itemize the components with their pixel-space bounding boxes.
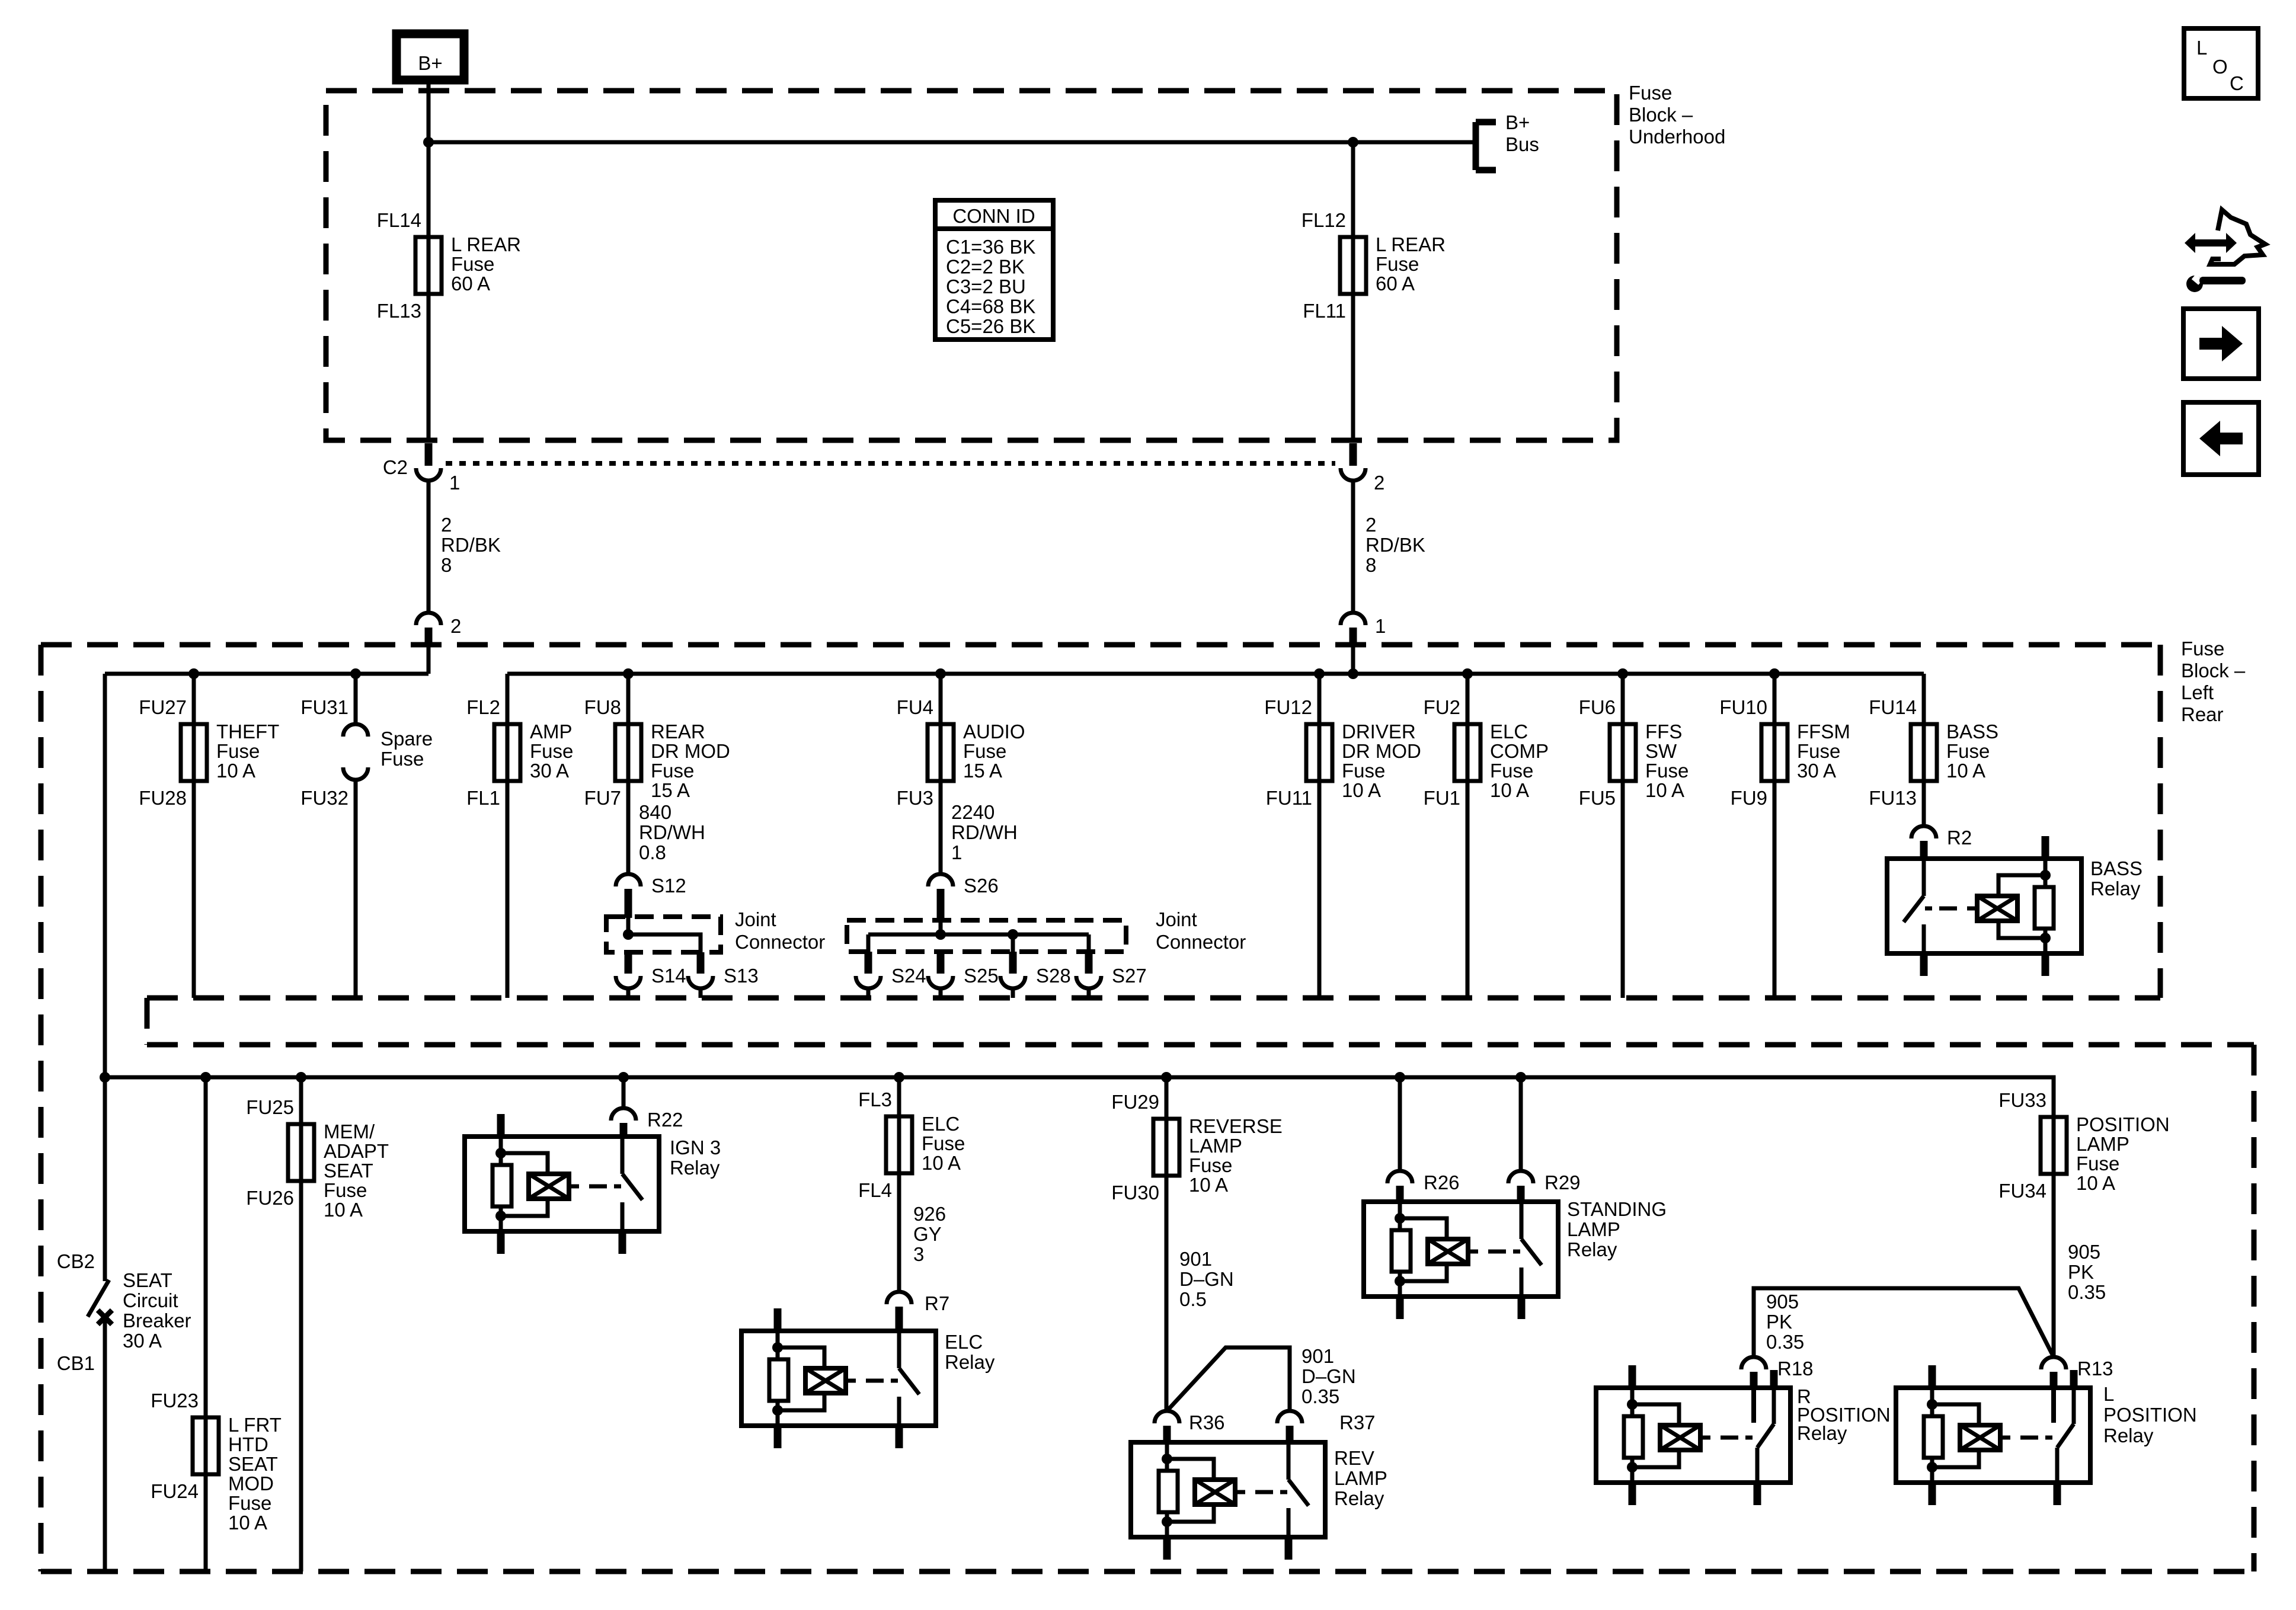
svg-text:Fuse: Fuse <box>1342 760 1385 782</box>
svg-text:S28: S28 <box>1036 965 1071 987</box>
svg-text:Joint: Joint <box>1156 908 1197 930</box>
svg-text:Relay: Relay <box>2103 1425 2154 1446</box>
svg-text:R29: R29 <box>1544 1172 1581 1193</box>
svg-text:BASS: BASS <box>1946 721 1998 742</box>
svg-text:MEM/: MEM/ <box>324 1121 375 1142</box>
connector R13 <box>2041 1357 2113 1379</box>
junction dot R22 drop <box>618 1072 629 1083</box>
svg-text:Connector: Connector <box>1156 931 1246 953</box>
fuse FL3/FL4 ELC 10A <box>858 1089 965 1201</box>
wire DRIVER DR MOD fuse <box>1318 674 1322 998</box>
svg-text:S24: S24 <box>891 965 926 987</box>
svg-text:R36: R36 <box>1189 1411 1225 1433</box>
svg-text:2: 2 <box>1374 472 1384 494</box>
svg-text:Underhood: Underhood <box>1629 126 1725 148</box>
bottom bus wire <box>105 1077 2054 1117</box>
svg-text:IGN 3: IGN 3 <box>670 1137 721 1158</box>
svg-text:Fuse: Fuse <box>1645 760 1689 782</box>
svg-text:Joint: Joint <box>735 908 776 930</box>
fuse FU6/FU5 FFS SW 10A <box>1579 696 1689 809</box>
relay R POSITION <box>1596 1365 1891 1505</box>
svg-text:RD/BK: RD/BK <box>441 534 501 556</box>
label Joint Connector 2 <box>1156 908 1246 953</box>
wire 905 PK 0.35 right <box>2054 1117 2106 1357</box>
svg-text:FU7: FU7 <box>584 787 621 809</box>
wire FFS SW fuse <box>1621 674 1625 998</box>
svg-text:FU5: FU5 <box>1579 787 1616 809</box>
svg-text:COMP: COMP <box>1490 740 1549 762</box>
spare fuse FU31/FU32 <box>300 674 433 998</box>
svg-text:FU13: FU13 <box>1869 787 1917 809</box>
dotted connector line <box>446 461 1335 466</box>
junction dot FU6 <box>1617 668 1628 679</box>
fuse FU8/FU7 REAR DR MOD 15A <box>584 696 730 809</box>
svg-text:R13: R13 <box>2077 1358 2113 1379</box>
joint connector 2 wiring <box>868 921 1089 952</box>
wire bus to R22 <box>622 1077 626 1109</box>
svg-text:STANDING: STANDING <box>1567 1198 1667 1220</box>
svg-text:C2=2 BK: C2=2 BK <box>946 256 1025 278</box>
svg-text:10 A: 10 A <box>2076 1172 2115 1194</box>
CONN ID table <box>935 200 1053 340</box>
fuse FU25/FU26 MEM/ADAPT SEAT 10A <box>246 1096 389 1221</box>
svg-text:Fuse: Fuse <box>1376 253 1419 275</box>
wire FL13 to C2 <box>427 294 431 442</box>
svg-text:0.5: 0.5 <box>1179 1288 1207 1310</box>
svg-text:R37: R37 <box>1339 1411 1376 1433</box>
svg-text:840: 840 <box>639 801 671 823</box>
connector left pin 2 bottom <box>416 613 461 647</box>
svg-text:ELC: ELC <box>945 1331 983 1353</box>
connector R18 <box>1741 1357 1814 1379</box>
connector S28 <box>1000 952 1071 998</box>
svg-text:FU3: FU3 <box>897 787 933 809</box>
connector right pin 1 bottom <box>1341 613 1386 647</box>
joint connector 1 dashed box <box>606 917 721 952</box>
wire ELC COMP fuse <box>1466 674 1470 998</box>
wire FU23 drop <box>204 1077 208 1571</box>
relay BASS <box>1887 836 2142 976</box>
joint connector 2 dashed box <box>847 920 1126 952</box>
svg-text:Bus: Bus <box>1505 133 1539 155</box>
svg-text:FU32: FU32 <box>300 787 348 809</box>
svg-text:Relay: Relay <box>670 1157 720 1179</box>
svg-text:Circuit: Circuit <box>123 1289 178 1311</box>
svg-text:Left: Left <box>2181 681 2214 703</box>
wire 926 GY 3 <box>899 1173 946 1292</box>
svg-text:10 A: 10 A <box>216 760 255 782</box>
connector R22 <box>611 1108 683 1131</box>
svg-text:Fuse: Fuse <box>1490 760 1533 782</box>
svg-text:BASS: BASS <box>2090 857 2142 879</box>
svg-text:CB1: CB1 <box>57 1352 95 1374</box>
svg-text:Fuse: Fuse <box>2076 1153 2119 1174</box>
wire 2 RD/BK 8 left <box>428 479 501 614</box>
junction dot FU2 <box>1462 668 1473 679</box>
svg-text:GY: GY <box>913 1223 942 1245</box>
svg-text:LAMP: LAMP <box>1334 1467 1387 1489</box>
svg-text:R26: R26 <box>1424 1172 1460 1193</box>
svg-text:10 A: 10 A <box>1645 779 1684 801</box>
connector S14 <box>616 952 686 998</box>
connector R7 <box>887 1292 949 1314</box>
wire THEFT fuse <box>192 674 196 998</box>
relay IGN 3 <box>465 1114 721 1254</box>
svg-text:Fuse: Fuse <box>324 1179 367 1201</box>
fusible link FL12/FL11 L REAR 60A <box>1302 142 1446 442</box>
svg-text:ELC: ELC <box>922 1113 960 1135</box>
svg-text:RD/WH: RD/WH <box>951 821 1018 843</box>
svg-text:10 A: 10 A <box>922 1152 961 1174</box>
svg-text:0.8: 0.8 <box>639 841 666 863</box>
svg-text:FU2: FU2 <box>1424 696 1460 718</box>
svg-text:FU23: FU23 <box>151 1390 199 1411</box>
svg-text:FL11: FL11 <box>1303 300 1346 322</box>
icon next arrow box <box>2183 309 2259 379</box>
junction dot CB drop <box>100 1072 110 1083</box>
wire C2 pin2 into bus <box>427 647 431 674</box>
junction dot at B+ drop <box>423 137 434 148</box>
svg-text:FU9: FU9 <box>1731 787 1767 809</box>
label Fuse Block - Underhood <box>1629 82 1725 148</box>
junction dot R26 drop <box>1395 1072 1405 1083</box>
junction dot FU25 drop <box>296 1072 306 1083</box>
junction dot FU4 <box>935 668 946 679</box>
connector S25 <box>928 952 999 998</box>
svg-text:Fuse: Fuse <box>1629 82 1672 104</box>
svg-text:901: 901 <box>1302 1345 1334 1367</box>
junction dot R29 drop <box>1515 1072 1526 1083</box>
svg-text:FL3: FL3 <box>858 1089 892 1110</box>
svg-text:LAMP: LAMP <box>1189 1135 1242 1157</box>
wire left drop to lower bus <box>103 674 107 1077</box>
fuse FU14/FU13 BASS 10A <box>1869 696 1998 809</box>
svg-text:RD/BK: RD/BK <box>1366 534 1425 556</box>
svg-text:30 A: 30 A <box>1797 760 1836 782</box>
svg-text:POSITION: POSITION <box>2103 1404 2197 1426</box>
svg-text:FU11: FU11 <box>1266 787 1312 809</box>
svg-text:L: L <box>2196 37 2207 59</box>
svg-text:CONN ID: CONN ID <box>952 205 1035 227</box>
svg-text:S26: S26 <box>964 875 999 897</box>
svg-text:Fuse: Fuse <box>530 740 573 762</box>
svg-text:1: 1 <box>1375 615 1386 637</box>
svg-text:Fuse: Fuse <box>1946 740 1990 762</box>
junction dot FU29 drop <box>1161 1072 1172 1083</box>
svg-text:B+: B+ <box>1505 111 1530 133</box>
fuse FU23/FU24 L FRT HTD SEAT MOD 10A <box>151 1390 282 1534</box>
svg-text:D–GN: D–GN <box>1302 1365 1356 1387</box>
svg-text:Fuse: Fuse <box>1189 1154 1232 1176</box>
svg-text:THEFT: THEFT <box>216 721 279 742</box>
svg-text:HTD: HTD <box>228 1433 268 1455</box>
wire 901 D-GN 0.5 <box>1166 1176 1234 1411</box>
svg-text:0.35: 0.35 <box>1766 1331 1804 1353</box>
connector S12 <box>616 874 686 918</box>
svg-text:Relay: Relay <box>1797 1422 1847 1444</box>
wire bus to R26 <box>1398 1077 1402 1171</box>
connector R29 <box>1508 1171 1581 1193</box>
svg-text:Connector: Connector <box>735 931 825 953</box>
fuse FU10/FU9 FFSM 30A <box>1719 696 1850 809</box>
svg-text:Fuse: Fuse <box>2181 638 2224 660</box>
svg-text:SEAT: SEAT <box>228 1453 278 1475</box>
svg-text:REAR: REAR <box>651 721 705 742</box>
svg-text:SEAT: SEAT <box>123 1269 172 1291</box>
svg-text:C4=68 BK: C4=68 BK <box>946 296 1035 318</box>
svg-text:Rear: Rear <box>2181 703 2224 725</box>
joint connector 1 wiring <box>623 918 701 952</box>
wire B+ to bus <box>427 80 431 142</box>
branch wire to R37 <box>1167 1345 1356 1411</box>
svg-text:D–GN: D–GN <box>1179 1268 1234 1290</box>
junction dot FL3 drop <box>894 1072 904 1083</box>
svg-text:60 A: 60 A <box>1376 273 1415 295</box>
svg-text:Fuse: Fuse <box>228 1492 271 1514</box>
junction dot FU27 <box>188 668 199 679</box>
svg-text:R18: R18 <box>1777 1358 1814 1379</box>
relay L POSITION <box>1896 1365 2197 1505</box>
connector S24 <box>856 952 926 998</box>
svg-text:POSITION: POSITION <box>2076 1113 2170 1135</box>
svg-text:C5=26 BK: C5=26 BK <box>946 315 1035 337</box>
svg-text:8: 8 <box>441 554 452 576</box>
svg-text:PK: PK <box>2068 1261 2094 1283</box>
svg-text:Relay: Relay <box>2090 878 2141 900</box>
svg-text:30 A: 30 A <box>123 1330 162 1352</box>
fuse FU12/FU11 DRIVER DR MOD 10A <box>1264 696 1421 809</box>
svg-text:FU12: FU12 <box>1264 696 1312 718</box>
relay REV LAMP <box>1131 1426 1387 1560</box>
svg-text:2: 2 <box>450 615 461 637</box>
B+ Bus terminal bracket <box>1476 111 1539 170</box>
fuse block left rear dashed outline <box>41 645 2254 1571</box>
label Joint Connector 1 <box>735 908 825 953</box>
wire AUDIO fuse <box>939 674 943 781</box>
svg-text:CB2: CB2 <box>57 1250 95 1272</box>
svg-text:ELC: ELC <box>1490 721 1528 742</box>
wire FFSM fuse <box>1773 674 1777 998</box>
svg-text:ADAPT: ADAPT <box>324 1140 389 1162</box>
junction dot FU8 <box>623 668 634 679</box>
svg-text:FU24: FU24 <box>151 1480 199 1502</box>
wire bus down to FL14 fuse <box>427 142 431 294</box>
svg-text:RD/WH: RD/WH <box>639 821 705 843</box>
svg-text:FU1: FU1 <box>1424 787 1460 809</box>
svg-text:Fuse: Fuse <box>922 1132 965 1154</box>
svg-text:DR MOD: DR MOD <box>1342 740 1421 762</box>
svg-text:PK: PK <box>1766 1311 1792 1333</box>
svg-text:10 A: 10 A <box>1342 779 1381 801</box>
connector C2 pin 1 <box>383 443 461 494</box>
svg-text:Spare: Spare <box>380 728 433 750</box>
svg-text:O: O <box>2212 56 2228 78</box>
svg-text:S25: S25 <box>964 965 999 987</box>
svg-text:R7: R7 <box>925 1292 949 1314</box>
svg-text:L FRT: L FRT <box>228 1414 282 1436</box>
svg-text:15 A: 15 A <box>963 760 1002 782</box>
svg-text:C: C <box>2230 72 2244 94</box>
svg-text:1: 1 <box>951 841 962 863</box>
junction dot FU23 drop <box>200 1072 211 1083</box>
svg-text:2: 2 <box>441 514 452 536</box>
fusible link FL14/FL13 L REAR 60A <box>377 209 521 322</box>
connector R37 <box>1277 1411 1376 1433</box>
svg-text:FL13: FL13 <box>377 300 421 322</box>
svg-text:10 A: 10 A <box>228 1512 267 1534</box>
svg-text:FU25: FU25 <box>246 1096 294 1118</box>
junction dot FU12 <box>1314 668 1325 679</box>
wire 2240 RD/WH 1 <box>941 781 1018 875</box>
wire FL11 pin1 into bus <box>1348 647 1358 679</box>
svg-text:Relay: Relay <box>945 1351 995 1373</box>
svg-text:Relay: Relay <box>1334 1487 1384 1509</box>
wire 840 RD/WH 0.8 <box>628 781 705 875</box>
svg-text:B+: B+ <box>418 52 442 74</box>
connector S27 <box>1076 952 1147 998</box>
svg-text:10 A: 10 A <box>324 1199 363 1221</box>
wire bus to R29 <box>1519 1077 1523 1171</box>
svg-text:Breaker: Breaker <box>123 1310 191 1331</box>
icon vehicle service <box>2185 210 2265 292</box>
connector R36 <box>1155 1411 1225 1433</box>
svg-text:FU10: FU10 <box>1719 696 1767 718</box>
svg-text:3: 3 <box>913 1243 924 1265</box>
svg-text:LAMP: LAMP <box>1567 1218 1620 1240</box>
junction dot FU31 <box>350 668 361 679</box>
svg-text:30 A: 30 A <box>530 760 569 782</box>
svg-text:10 A: 10 A <box>1946 760 1985 782</box>
wire bus to FL3 <box>897 1077 901 1173</box>
svg-text:R22: R22 <box>647 1109 683 1131</box>
wire REAR DR MOD fuse <box>626 674 631 781</box>
svg-text:Fuse: Fuse <box>963 740 1006 762</box>
svg-text:L REAR: L REAR <box>451 233 521 255</box>
svg-text:FU26: FU26 <box>246 1187 294 1209</box>
svg-text:S12: S12 <box>651 875 686 897</box>
svg-text:S13: S13 <box>724 965 759 987</box>
fuse FL2/FL1 AMP 30A <box>466 696 573 809</box>
svg-text:FU14: FU14 <box>1869 696 1917 718</box>
branch wire to R18 <box>1754 1288 2054 1357</box>
fuse FU33/FU34 POSITION LAMP 10A <box>1998 1089 2169 1202</box>
connector right pin 2 top <box>1341 443 1384 494</box>
svg-text:FU4: FU4 <box>897 696 933 718</box>
icon back arrow box <box>2183 402 2259 475</box>
label Fuse Block - Left Rear <box>2181 638 2246 725</box>
svg-text:DRIVER: DRIVER <box>1342 721 1416 742</box>
svg-text:L REAR: L REAR <box>1376 233 1446 255</box>
svg-text:S27: S27 <box>1112 965 1147 987</box>
svg-text:2240: 2240 <box>951 801 994 823</box>
wire BASS fuse <box>1922 674 1926 826</box>
relay STANDING LAMP <box>1364 1186 1667 1319</box>
svg-text:REVERSE: REVERSE <box>1189 1115 1283 1137</box>
svg-text:FFSM: FFSM <box>1797 721 1850 742</box>
svg-text:REV: REV <box>1334 1447 1374 1469</box>
top bus wire <box>428 140 1476 145</box>
relay ELC <box>741 1307 995 1448</box>
svg-text:926: 926 <box>913 1203 946 1225</box>
fuse block underhood dashed box <box>326 91 1617 440</box>
wire FU25 drop <box>299 1077 303 1571</box>
icon LOC box <box>2184 28 2258 98</box>
svg-text:FU27: FU27 <box>139 696 187 718</box>
svg-text:Fuse: Fuse <box>651 760 694 782</box>
circuit breaker CB2/CB1 SEAT 30A <box>57 1077 191 1571</box>
wire AMP fuse <box>506 674 510 998</box>
svg-text:FU6: FU6 <box>1579 696 1616 718</box>
svg-text:DR MOD: DR MOD <box>651 740 730 762</box>
svg-text:FU30: FU30 <box>1111 1182 1159 1204</box>
fuse FU29/FU30 REVERSE LAMP 10A <box>1111 1091 1282 1204</box>
svg-text:901: 901 <box>1179 1248 1212 1270</box>
svg-text:1: 1 <box>449 472 460 494</box>
svg-text:FU33: FU33 <box>1998 1089 2046 1111</box>
svg-text:AMP: AMP <box>530 721 573 742</box>
connector R2 <box>1911 826 1972 860</box>
svg-text:L: L <box>2103 1383 2114 1405</box>
connector S26 <box>928 874 999 921</box>
middle bus segment A <box>105 672 428 676</box>
svg-text:FU28: FU28 <box>139 787 187 809</box>
fuse FU27/FU28 THEFT 10A <box>139 696 279 809</box>
svg-text:2: 2 <box>1366 514 1376 536</box>
svg-text:Block –: Block – <box>1629 104 1693 126</box>
svg-text:Fuse: Fuse <box>380 748 424 770</box>
svg-text:MOD: MOD <box>228 1473 274 1494</box>
svg-text:FL2: FL2 <box>466 696 500 718</box>
svg-text:LAMP: LAMP <box>2076 1133 2129 1155</box>
svg-text:C2: C2 <box>383 456 408 478</box>
svg-text:Fuse: Fuse <box>451 253 494 275</box>
junction dot FU10 <box>1769 668 1780 679</box>
svg-text:0.35: 0.35 <box>1302 1385 1339 1407</box>
svg-text:60 A: 60 A <box>451 273 490 295</box>
svg-text:FU34: FU34 <box>1998 1180 2046 1202</box>
svg-text:AUDIO: AUDIO <box>963 721 1025 742</box>
svg-text:FFS: FFS <box>1645 721 1682 742</box>
svg-text:Fuse: Fuse <box>216 740 260 762</box>
svg-text:C3=2 BU: C3=2 BU <box>946 276 1026 297</box>
svg-text:0.35: 0.35 <box>2068 1281 2106 1303</box>
fuse FU4/FU3 AUDIO 15A <box>897 696 1025 809</box>
svg-text:905: 905 <box>2068 1241 2100 1263</box>
svg-text:Fuse: Fuse <box>1797 740 1840 762</box>
wire 2 RD/BK 8 right <box>1353 479 1425 614</box>
junction dot at FL12 drop <box>1348 137 1358 148</box>
middle bus segment B <box>507 672 1924 676</box>
svg-text:FL12: FL12 <box>1302 209 1346 231</box>
svg-text:FU8: FU8 <box>584 696 621 718</box>
connector S13 <box>688 952 759 998</box>
svg-text:8: 8 <box>1366 554 1376 576</box>
svg-text:FL14: FL14 <box>377 209 421 231</box>
connector R26 <box>1387 1171 1460 1193</box>
svg-text:C1=36 BK: C1=36 BK <box>946 236 1035 258</box>
svg-text:FU29: FU29 <box>1111 1091 1159 1113</box>
svg-text:Relay: Relay <box>1567 1238 1617 1260</box>
svg-text:FU31: FU31 <box>300 696 348 718</box>
svg-text:905: 905 <box>1766 1291 1799 1313</box>
power terminal B+ <box>396 34 464 80</box>
svg-text:10 A: 10 A <box>1490 779 1529 801</box>
svg-text:SEAT: SEAT <box>324 1160 373 1182</box>
fuse FU2/FU1 ELC COMP 10A <box>1424 696 1549 809</box>
svg-text:SW: SW <box>1645 740 1677 762</box>
svg-text:15 A: 15 A <box>651 779 690 801</box>
svg-text:Block –: Block – <box>2181 660 2246 681</box>
